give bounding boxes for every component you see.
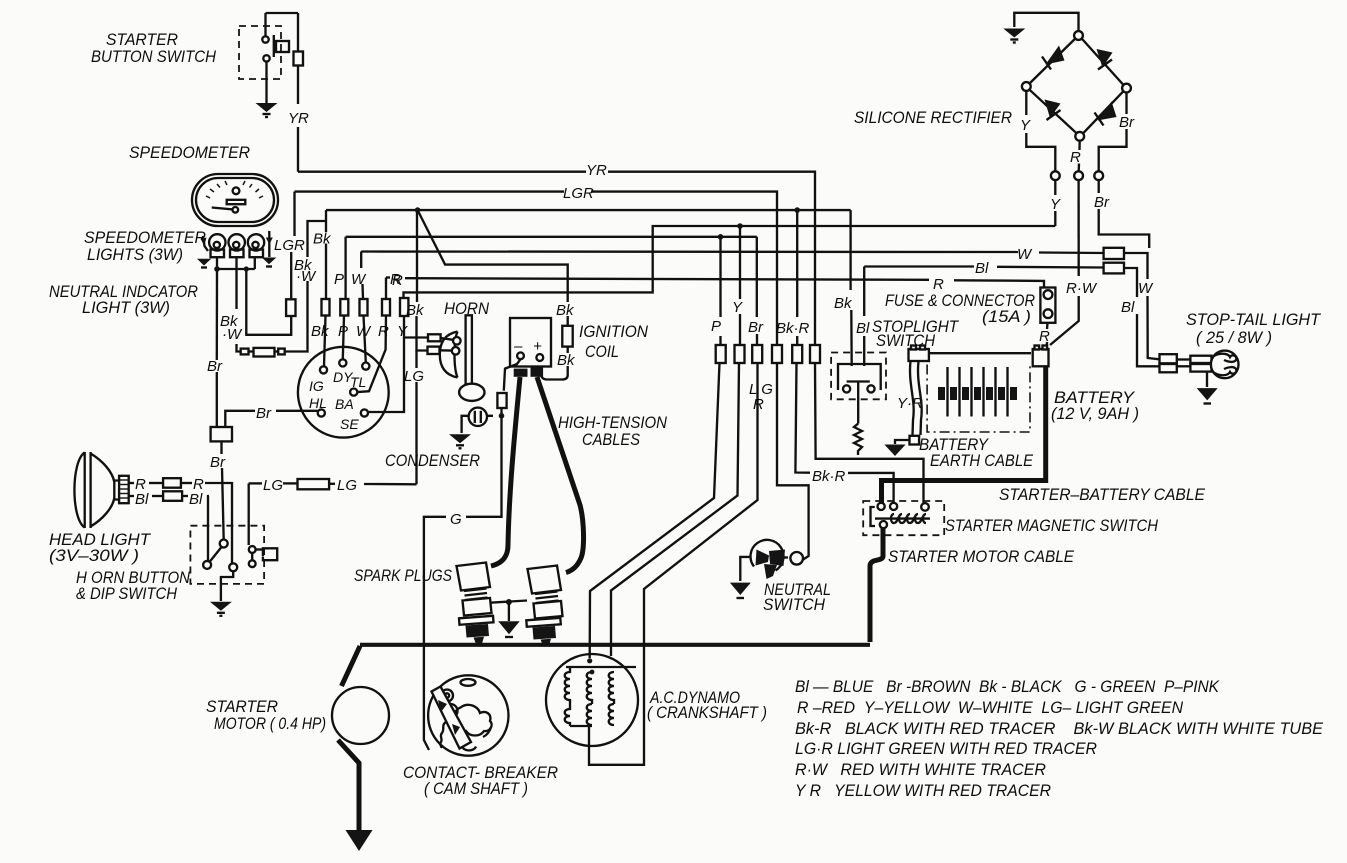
svg-text:SWITCH: SWITCH — [763, 595, 826, 614]
svg-text:Bk-R BLACK WITH RED TRACER: Bk-R BLACK WITH RED TRACER Bk-W BLACK WI… — [795, 719, 1324, 738]
svg-text:Br: Br — [256, 405, 272, 422]
svg-text:(3V–30W ): (3V–30W ) — [49, 546, 139, 565]
svg-text:·W: ·W — [222, 326, 243, 343]
svg-text:Y: Y — [397, 323, 408, 340]
svg-text:W: W — [1138, 280, 1154, 297]
svg-text:BA: BA — [335, 396, 354, 412]
svg-text:STARTER MAGNETIC SWITCH: STARTER MAGNETIC SWITCH — [945, 516, 1159, 535]
svg-text:Bk: Bk — [313, 231, 332, 248]
svg-text:Y: Y — [732, 299, 743, 316]
svg-text:P: P — [711, 318, 721, 335]
svg-text:IG: IG — [309, 378, 324, 394]
svg-text:LIGHTS (3W): LIGHTS (3W) — [87, 245, 183, 264]
svg-text:& DIP SWITCH: & DIP SWITCH — [76, 584, 178, 603]
svg-text:Bk: Bk — [406, 302, 425, 319]
svg-text:STARTER–BATTERY CABLE: STARTER–BATTERY CABLE — [999, 485, 1206, 504]
svg-text:Bl: Bl — [1121, 299, 1135, 316]
svg-text:R: R — [753, 396, 764, 413]
svg-text:R –RED Y–YELLOW W–WHITE LG–: R –RED Y–YELLOW W–WHITE LG– LIGHT GREEN — [797, 698, 1184, 717]
svg-text:Bk: Bk — [311, 323, 330, 340]
svg-text:YR: YR — [586, 162, 607, 179]
svg-text:( CAM SHAFT ): ( CAM SHAFT ) — [424, 779, 528, 798]
svg-text:R: R — [933, 276, 944, 293]
svg-text:LGR: LGR — [274, 237, 305, 254]
svg-text:R: R — [378, 323, 389, 340]
svg-text:IGNITION: IGNITION — [579, 322, 649, 341]
svg-text:EARTH CABLE: EARTH CABLE — [930, 451, 1034, 470]
svg-text:P: P — [338, 323, 348, 340]
svg-text:Bk: Bk — [557, 352, 576, 369]
svg-text:SPARK PLUGS: SPARK PLUGS — [354, 566, 453, 585]
svg-text:R·W: R·W — [1066, 280, 1098, 297]
svg-text:SWITCH: SWITCH — [876, 331, 936, 350]
svg-text:Bl: Bl — [189, 491, 203, 508]
svg-text:COIL: COIL — [585, 342, 619, 361]
svg-text:(12 V, 9AH ): (12 V, 9AH ) — [1051, 404, 1139, 423]
svg-text:SE: SE — [340, 416, 359, 432]
svg-text:Bl: Bl — [856, 320, 870, 337]
svg-text:SILICONE RECTIFIER: SILICONE RECTIFIER — [854, 108, 1012, 127]
svg-text:Br: Br — [748, 319, 764, 336]
svg-text:Y: Y — [1020, 117, 1031, 134]
svg-text:BUTTON SWITCH: BUTTON SWITCH — [91, 47, 217, 66]
svg-text:( CRANKSHAFT ): ( CRANKSHAFT ) — [647, 703, 767, 722]
svg-text:Y: Y — [1050, 196, 1061, 213]
svg-text:LG·R LIGHT GREEN WITH RED TRAC: LG·R LIGHT GREEN WITH RED TRACER — [795, 739, 1097, 758]
svg-text:P: P — [334, 271, 344, 288]
svg-text:CONDENSER: CONDENSER — [385, 451, 480, 470]
svg-text:R·W RED WITH WHITE TRACER: R·W RED WITH WHITE TRACER — [795, 760, 1046, 779]
svg-text:Br: Br — [210, 454, 226, 471]
svg-text:( 25 / 8W ): ( 25 / 8W ) — [1196, 328, 1272, 347]
svg-text:TL: TL — [350, 374, 366, 390]
svg-text:Bl: Bl — [135, 491, 149, 508]
svg-text:Bl: Bl — [975, 260, 989, 277]
svg-text:W: W — [356, 323, 372, 340]
svg-text:MOTOR ( 0.4 HP): MOTOR ( 0.4 HP) — [214, 714, 326, 733]
svg-text:R: R — [1039, 328, 1050, 345]
svg-text:LG: LG — [337, 477, 357, 494]
svg-text:Br: Br — [207, 358, 223, 375]
svg-text:LIGHT (3W): LIGHT (3W) — [82, 298, 170, 317]
svg-text:LG: LG — [263, 477, 283, 494]
svg-text:Y·R: Y·R — [897, 395, 923, 412]
svg-text:LGR: LGR — [563, 185, 594, 202]
svg-text:(15A ): (15A ) — [982, 307, 1031, 326]
svg-text:Y R YELLOW WITH RED TRACER: Y R YELLOW WITH RED TRACER — [795, 781, 1051, 800]
svg-text:Bk: Bk — [556, 302, 575, 319]
svg-text:+: + — [533, 338, 542, 355]
svg-text:CABLES: CABLES — [582, 430, 641, 449]
svg-text:Bk: Bk — [834, 295, 853, 312]
svg-text:Bk·R: Bk·R — [812, 468, 846, 485]
svg-text:R: R — [392, 272, 403, 289]
svg-text:STOP-TAIL LIGHT: STOP-TAIL LIGHT — [1186, 310, 1322, 329]
svg-text:HL: HL — [309, 395, 327, 411]
svg-text:W: W — [351, 271, 367, 288]
svg-text:YR: YR — [288, 110, 309, 127]
svg-text:LG: LG — [404, 368, 424, 385]
svg-text:G: G — [450, 511, 462, 528]
svg-text:Br: Br — [1119, 114, 1135, 131]
svg-text:SPEEDOMETER: SPEEDOMETER — [129, 143, 250, 162]
svg-text:STARTER MOTOR CABLE: STARTER MOTOR CABLE — [888, 547, 1075, 566]
svg-text:W: W — [1017, 246, 1033, 263]
svg-text:R: R — [1070, 149, 1081, 166]
svg-text:Br: Br — [1094, 194, 1110, 211]
svg-text:Bk·R: Bk·R — [776, 320, 810, 337]
svg-text:Bl — BLUE Br -BROWN Bk - BL: Bl — BLUE Br -BROWN Bk - BLACK G - GREEN… — [795, 677, 1220, 696]
svg-text:·W: ·W — [296, 268, 317, 285]
